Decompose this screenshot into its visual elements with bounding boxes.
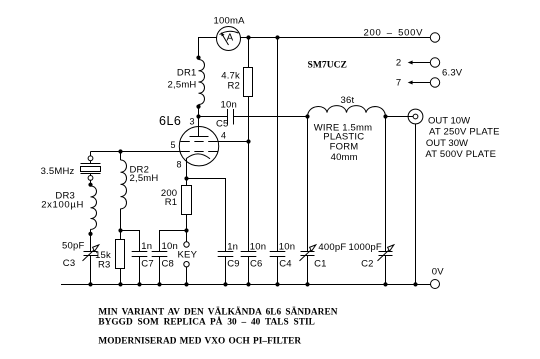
wire R1 to key xyxy=(186,215,188,242)
resistor R1 body xyxy=(182,186,192,215)
node tank left dot xyxy=(305,114,309,118)
node cathode C9 junction dot xyxy=(184,176,188,180)
wire pin5 grid to crystal xyxy=(91,151,181,153)
svg-text:0V: 0V xyxy=(432,267,444,278)
svg-text:C4: C4 xyxy=(279,258,292,269)
node DR1 top dot xyxy=(196,56,200,60)
svg-text:R1: R1 xyxy=(165,197,178,208)
svg-text:AT 250V PLATE: AT 250V PLATE xyxy=(429,126,500,137)
wire DR3 to C3 xyxy=(90,229,92,251)
svg-text:10n: 10n xyxy=(250,242,266,253)
wire pin8 cathode down xyxy=(186,159,188,186)
inductor DR2 coil xyxy=(121,160,127,209)
wire output terminal down to bus xyxy=(415,124,417,285)
output terminal J1 xyxy=(408,109,423,124)
node DR2 top dot xyxy=(118,149,122,153)
resistor R2 wire top xyxy=(248,38,250,68)
svg-text:C2: C2 xyxy=(361,258,374,269)
svg-text:2,5mH: 2,5mH xyxy=(168,80,197,91)
node grid leak junction dot xyxy=(118,228,122,232)
wire key to bus xyxy=(186,267,188,285)
wire junction to C7 xyxy=(121,231,140,252)
svg-text:36t: 36t xyxy=(341,95,355,106)
wire heater 2 with arrow xyxy=(412,62,431,64)
crystal X1 bottom pin circle xyxy=(88,176,93,181)
svg-text:2x100µH: 2x100µH xyxy=(41,200,84,211)
svg-text:200 – 500V: 200 – 500V xyxy=(364,28,424,39)
wire C4 branch vertical xyxy=(277,38,279,252)
ground bus wire xyxy=(61,284,431,286)
svg-text:C5: C5 xyxy=(216,118,229,129)
svg-text:10n: 10n xyxy=(162,241,178,252)
svg-text:7: 7 xyxy=(396,77,401,88)
tank coil L1 xyxy=(308,106,386,117)
svg-text:R3: R3 xyxy=(98,260,111,271)
node anode junction dot xyxy=(196,114,200,118)
wire DR2 to R3 xyxy=(120,209,122,240)
svg-text:C7: C7 xyxy=(141,258,154,269)
wire pin4 screen to R2 line xyxy=(218,141,248,143)
svg-text:3.5MHz: 3.5MHz xyxy=(41,166,75,177)
svg-text:MODERNISERAD MED VXO OCH PI–FI: MODERNISERAD MED VXO OCH PI–FILTER xyxy=(98,336,301,346)
crystal X1 top pin circle xyxy=(88,156,93,161)
wire DR1 bottom to tube pin 3 xyxy=(198,105,200,137)
capacitor C3 arrow xyxy=(83,250,94,261)
wire R2 down to C6 xyxy=(248,97,250,252)
tube control grid dashed xyxy=(181,151,218,153)
tube screen grid dashed xyxy=(181,141,218,143)
heater terminal 2 circle xyxy=(430,58,439,67)
capacitor C4 plates xyxy=(270,251,286,253)
svg-text:C3: C3 xyxy=(63,258,76,269)
capacitor C2 variable plates xyxy=(379,251,393,253)
svg-text:3: 3 xyxy=(189,117,194,127)
capacitor C9 plates xyxy=(218,251,234,253)
svg-text:DR1: DR1 xyxy=(177,68,197,79)
svg-text:1000pF: 1000pF xyxy=(349,242,382,253)
svg-text:1n: 1n xyxy=(227,242,238,253)
ammeter needle arrowhead xyxy=(221,32,225,36)
capacitor C8 plates xyxy=(152,251,168,253)
ammeter M1 circle xyxy=(217,27,241,51)
capacitor C6 plates xyxy=(241,251,257,253)
node DR1 bottom dot xyxy=(196,105,200,109)
svg-text:2,5mH: 2,5mH xyxy=(130,173,159,184)
ammeter scale arc xyxy=(220,31,239,34)
svg-text:6L6: 6L6 xyxy=(159,114,181,128)
capacitor C1 wire top xyxy=(307,117,309,252)
capacitor C2 wire top xyxy=(385,117,387,252)
svg-text:C6: C6 xyxy=(250,258,263,269)
svg-text:A: A xyxy=(226,33,233,44)
svg-text:1n: 1n xyxy=(141,241,152,252)
capacitor C1 variable plates xyxy=(301,251,315,253)
svg-text:OUT 10W: OUT 10W xyxy=(428,115,470,126)
capacitor C5 plates xyxy=(227,109,229,125)
wire heater 7 with arrow xyxy=(412,82,431,84)
svg-text:C9: C9 xyxy=(227,258,240,269)
inductor DR2 wire top xyxy=(120,152,122,161)
wire C5 to tank coil xyxy=(234,116,308,118)
wire top rail left of meter xyxy=(199,38,217,60)
svg-text:OUT 30W: OUT 30W xyxy=(426,138,468,149)
node DR3 top dot xyxy=(88,183,92,187)
node top rail C4 dot xyxy=(275,35,279,39)
key jack bottom circle xyxy=(184,262,189,267)
svg-text:PLASTIC: PLASTIC xyxy=(323,131,364,142)
node bus dots xyxy=(88,282,417,286)
0V terminal circle xyxy=(431,280,440,289)
node top rail R2 dot xyxy=(246,35,250,39)
capacitor C1 arrow xyxy=(300,250,311,261)
resistor R3 body xyxy=(116,240,125,269)
heater terminal 7 circle xyxy=(430,78,439,87)
svg-text:50pF: 50pF xyxy=(62,240,84,251)
svg-text:C1: C1 xyxy=(314,258,327,269)
inductor DR1 coil xyxy=(199,60,205,105)
ammeter needle xyxy=(222,35,228,45)
svg-text:5: 5 xyxy=(170,140,175,150)
svg-text:AT 500V PLATE: AT 500V PLATE xyxy=(425,149,496,160)
svg-text:R2: R2 xyxy=(227,80,240,91)
resistor R2 body xyxy=(244,68,253,97)
svg-text:C8: C8 xyxy=(162,258,175,269)
capacitor C7 plates xyxy=(132,251,148,253)
svg-text:400pF: 400pF xyxy=(318,242,346,253)
svg-text:40mm: 40mm xyxy=(331,152,358,163)
crystal X1 symbol xyxy=(90,161,92,164)
tube anode plate xyxy=(190,136,209,138)
svg-text:BYGGD SOM REPLICA PÅ 30 – 40 T: BYGGD SOM REPLICA PÅ 30 – 40 TALS STIL xyxy=(98,315,315,327)
svg-text:6.3V: 6.3V xyxy=(442,68,463,79)
wire R3 to bus xyxy=(120,269,122,285)
tube V1 6L6 envelope xyxy=(179,127,218,166)
inductor DR3 coil xyxy=(91,186,97,229)
wire C8 corner to cathode junction xyxy=(160,231,187,252)
capacitor C3 variable plates xyxy=(84,251,98,253)
svg-text:10n: 10n xyxy=(279,242,295,253)
wire top rail meter to HV terminal xyxy=(241,37,431,39)
node screen junction dot xyxy=(246,139,250,143)
HV terminal circle xyxy=(430,33,439,42)
svg-text:8: 8 xyxy=(177,160,182,170)
svg-text:4: 4 xyxy=(221,130,226,140)
svg-text:KEY: KEY xyxy=(178,249,198,260)
wire tank to output terminal xyxy=(386,116,414,118)
node DR3 bottom dot xyxy=(88,232,92,236)
tube cathode arc xyxy=(186,154,210,159)
wire crystal to DR3 xyxy=(90,180,92,186)
node tank right dot xyxy=(383,114,387,118)
node R1 bottom junction dot xyxy=(184,228,188,232)
wire anode to C5 xyxy=(199,116,228,118)
svg-text:2: 2 xyxy=(396,58,401,69)
svg-text:100mA: 100mA xyxy=(214,16,246,27)
wire crystal drop xyxy=(90,152,92,156)
svg-text:10n: 10n xyxy=(221,100,237,111)
wire cathode to C9 xyxy=(187,179,226,252)
svg-text:SM7UCZ: SM7UCZ xyxy=(308,60,347,71)
capacitor C2 arrow xyxy=(378,250,389,261)
key jack top circle xyxy=(184,242,189,247)
